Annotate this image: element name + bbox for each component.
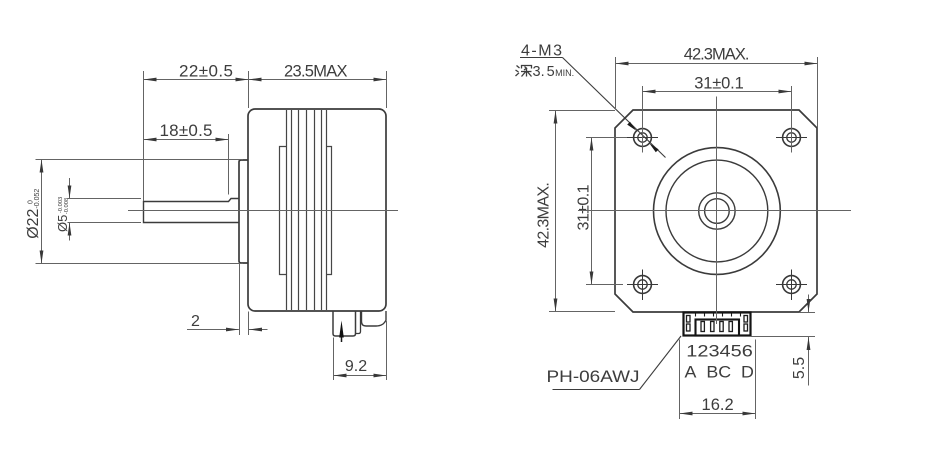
end bell circle [654, 148, 781, 275]
svg-text:42.3MAX.: 42.3MAX. [536, 182, 553, 248]
svg-text:22±0.5: 22±0.5 [179, 62, 233, 81]
dim 5.5 [799, 312, 815, 314]
dim 18±0.5 [228, 134, 230, 195]
shaft boss circle [699, 193, 735, 229]
svg-text:5.5: 5.5 [791, 357, 808, 379]
svg-text:23.5MAX: 23.5MAX [284, 62, 348, 80]
motor body outline [248, 109, 386, 311]
dim 9.2 [333, 338, 335, 381]
dim 31±0.1 top [642, 86, 644, 153]
dim Ø5 tolerances [68, 198, 142, 200]
mounting hole bottom-left [634, 276, 652, 294]
pilot boss [239, 160, 248, 263]
svg-text:2: 2 [191, 313, 200, 330]
svg-text:31±0.1: 31±0.1 [576, 184, 593, 230]
connector front view [684, 313, 751, 336]
svg-text:16.2: 16.2 [702, 396, 734, 414]
svg-text:A BC D: A BC D [685, 363, 754, 382]
connector block side view [333, 311, 356, 336]
svg-text:PH-06AWJ: PH-06AWJ [547, 368, 640, 386]
dim Ø22 -0.052 [36, 159, 244, 161]
centerline horizontal [578, 210, 851, 212]
mounting hole top-left [627, 129, 807, 300]
flange square with chamfers [615, 110, 817, 312]
svg-text:31±0.1: 31±0.1 [694, 74, 744, 92]
stator lamination outer step band [280, 147, 332, 275]
label 深3.5MIN. [516, 66, 532, 77]
svg-text:123456: 123456 [686, 342, 753, 361]
dim 42.3MAX. left vertical [549, 110, 615, 112]
rear housing step side view [362, 311, 387, 326]
connector right wall side view [356, 311, 361, 334]
svg-text:18±0.5: 18±0.5 [160, 121, 213, 140]
dim 2 [239, 264, 241, 335]
pilot circle [666, 160, 768, 262]
black up arrow at connector [341, 335, 343, 342]
svg-text:42.3MAX.: 42.3MAX. [684, 46, 750, 64]
shaft circle [705, 199, 730, 224]
shaft [144, 199, 240, 223]
centerline left view [128, 210, 398, 212]
dim 42.3MAX. top [615, 57, 617, 108]
dim 23.5MAX [386, 71, 388, 108]
mounting hole top-right [783, 129, 801, 147]
dim 16.2 [679, 340, 681, 420]
dim 31±0.1 left vertical [586, 137, 627, 139]
svg-text:9.2: 9.2 [345, 358, 367, 375]
mounting hole bottom-right [783, 276, 801, 294]
centerline vertical [716, 97, 718, 325]
dim 22±0.5 [143, 71, 145, 201]
lamination lines [287, 110, 327, 310]
